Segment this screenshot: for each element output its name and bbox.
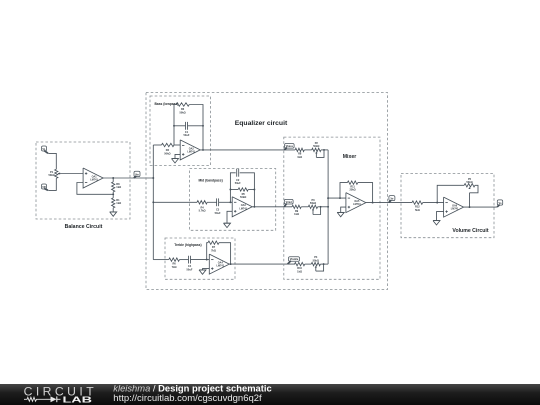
- wire to OA2 inverting input: [174, 144, 180, 146]
- wire P1 wiper to op-amp: [61, 173, 84, 175]
- junction feedback tap: [436, 202, 438, 204]
- junction R5 left: [229, 189, 231, 191]
- wire R9 to P3: [301, 206, 308, 208]
- junction C1 right: [202, 125, 204, 127]
- ground: [224, 223, 231, 227]
- wire mid output to mixer: [252, 206, 292, 208]
- wire P4 to bus: [320, 263, 328, 265]
- junction OA4 inverting input: [206, 259, 208, 261]
- wire feedback right: [219, 243, 231, 264]
- svg-text:5.7kΩ: 5.7kΩ: [199, 209, 206, 213]
- wire input bus: [152, 145, 154, 260]
- wire R4 to C3: [207, 201, 216, 203]
- wire feedback right: [240, 173, 255, 207]
- wire bus to R2: [153, 144, 161, 146]
- svg-text:Volume Circuit: Volume Circuit: [452, 228, 488, 234]
- wire VR to P1: [48, 178, 56, 190]
- Equalizer circuit box: [146, 93, 388, 290]
- junction bus/Vmid: [327, 206, 329, 208]
- node VL input: [42, 146, 49, 153]
- node Vout: [497, 200, 503, 207]
- wire R1 to ground: [112, 208, 114, 212]
- wire feedback to inverting input: [77, 183, 113, 195]
- footer url line: [113, 393, 262, 404]
- wire C4 to OA4: [191, 259, 207, 261]
- resistor R4 5.7k: [197, 201, 207, 213]
- svg-text:LAB: LAB: [63, 395, 93, 404]
- wire mixer output: [366, 202, 412, 204]
- junction bus/Vin: [152, 177, 154, 179]
- svg-text:http://circuitlab.com/cgscuvdg: http://circuitlab.com/cgscuvdgn6q2f: [113, 393, 262, 404]
- wire feedback right: [358, 183, 373, 203]
- ground: [199, 270, 206, 274]
- op-amp OA1: [83, 168, 103, 188]
- wire bus to R4: [153, 201, 197, 203]
- Treble (highpass) box: [165, 238, 235, 279]
- op-amp OA3: [232, 197, 252, 217]
- potentiometer P4 50k: [311, 255, 320, 271]
- Balance Circuit box: [36, 142, 130, 219]
- svg-text:Vbass: Vbass: [286, 145, 294, 148]
- svg-text:50kΩ: 50kΩ: [179, 110, 185, 114]
- Mixer box: [284, 137, 380, 279]
- wire to OA4: [207, 259, 210, 261]
- ground: [172, 159, 179, 163]
- svg-text:Vmid: Vmid: [286, 201, 293, 204]
- svg-text:50kΩ: 50kΩ: [240, 195, 246, 199]
- svg-text:1kΩ: 1kΩ: [116, 185, 121, 189]
- wire P2 wiper loop: [316, 150, 324, 158]
- svg-text:50kΩ: 50kΩ: [313, 258, 319, 262]
- junction OA6 output: [469, 206, 471, 208]
- junction P3 loop: [320, 206, 322, 208]
- logo LAB text: [63, 395, 93, 404]
- potentiometer P3 50k: [308, 198, 317, 215]
- wire to OA3: [230, 201, 232, 203]
- Volume Circuit box: [401, 174, 494, 238]
- node Vmid: [284, 199, 293, 206]
- junction bus to OA5: [327, 197, 329, 199]
- svg-text:50kΩ: 50kΩ: [48, 173, 54, 177]
- svg-text:LM741: LM741: [239, 207, 247, 210]
- wire R8 to R1: [112, 192, 114, 198]
- junction OA5 output: [372, 202, 374, 204]
- wire cap right: [188, 125, 204, 127]
- junction P2 loop: [323, 149, 325, 151]
- resistor R8 1k (mixer): [295, 148, 304, 159]
- node Vbass: [284, 144, 294, 150]
- svg-text:LM741: LM741: [353, 203, 361, 206]
- wire mixer bus: [327, 150, 329, 264]
- junction output/R8: [112, 177, 114, 179]
- potentiometer P5 50k: [464, 177, 475, 189]
- footer title line: [113, 382, 271, 393]
- resistor R12 5k: [412, 201, 423, 212]
- op-amp OA5: [346, 193, 366, 213]
- svg-text:50uF: 50uF: [235, 181, 241, 185]
- svg-text:7kΩ: 7kΩ: [172, 265, 177, 269]
- resistor R9 1k (mixer): [292, 205, 301, 216]
- wire R8 to P2: [304, 149, 311, 151]
- wire OA6 + to ground: [437, 212, 444, 221]
- svg-text:Bass (lowpass): Bass (lowpass): [155, 102, 179, 106]
- svg-text:Treble (highpass): Treble (highpass): [174, 243, 201, 247]
- junction feedback tap: [339, 197, 341, 199]
- svg-text:50uF: 50uF: [215, 211, 221, 215]
- svg-text:kleishma / Design project sche: kleishma / Design project schematic: [113, 382, 271, 393]
- svg-text:Vtreble: Vtreble: [290, 258, 299, 261]
- wire P5 wiper to output: [469, 193, 471, 207]
- svg-text:Vo: Vo: [498, 202, 501, 205]
- wire treble output to mixer: [229, 263, 295, 265]
- junction R5 right: [253, 189, 255, 191]
- capacitor C3 50uF: [215, 198, 221, 214]
- wire feedback to P5: [437, 185, 464, 202]
- svg-text:LM741: LM741: [451, 208, 459, 211]
- svg-text:1kΩ: 1kΩ: [116, 201, 121, 205]
- svg-text:LM741: LM741: [90, 179, 98, 182]
- svg-text:25kΩ: 25kΩ: [349, 188, 355, 192]
- junction OA3 inverting input: [229, 201, 231, 203]
- svg-text:50kΩ: 50kΩ: [313, 144, 319, 148]
- svg-text:Equalizer circuit: Equalizer circuit: [235, 120, 288, 127]
- wire bus to R6: [153, 259, 169, 261]
- junction C1 left: [173, 125, 175, 127]
- wire P5 loop: [470, 185, 479, 193]
- junction P4 loop: [323, 263, 325, 265]
- junction OA4 output: [230, 263, 232, 265]
- wire R10 to P4: [305, 263, 312, 265]
- node Vtreble: [288, 257, 300, 264]
- svg-text:50kΩ: 50kΩ: [310, 201, 316, 205]
- resistor R1 1k: [112, 198, 122, 208]
- svg-text:1kΩ: 1kΩ: [297, 269, 302, 273]
- wire R6 to C4: [180, 259, 189, 261]
- wire cap left: [174, 125, 186, 127]
- op-amp OA2: [180, 140, 200, 160]
- junction bus/mid: [152, 201, 154, 203]
- resistor R8 1k: [112, 178, 122, 192]
- capacitor C1 50uF: [184, 122, 190, 137]
- logo resistor symbol: [24, 397, 46, 401]
- capacitor C4 50uF: [187, 256, 193, 272]
- svg-text:50kΩ: 50kΩ: [164, 151, 170, 155]
- junction feedback tap: [112, 193, 114, 195]
- resistor R5 50k: [230, 188, 254, 199]
- svg-text:1kΩ: 1kΩ: [294, 212, 299, 216]
- wire P3 wiper loop: [313, 207, 321, 215]
- wire P4 wiper loop: [316, 264, 324, 271]
- wire to feedback top: [174, 105, 176, 146]
- svg-text:LM741: LM741: [217, 265, 225, 268]
- svg-text:Mixer: Mixer: [343, 154, 357, 160]
- svg-text:5kΩ: 5kΩ: [415, 208, 420, 212]
- op-amp OA4: [209, 254, 229, 274]
- ground: [433, 221, 440, 225]
- wire bass output to mixer: [200, 149, 295, 151]
- wire feedback right: [189, 105, 203, 150]
- wire feedback left: [230, 173, 235, 203]
- wire OA6 output: [464, 206, 497, 208]
- svg-text:50uF: 50uF: [184, 133, 190, 137]
- wire OA4 + to ground: [203, 269, 210, 270]
- svg-text:VR: VR: [42, 186, 46, 189]
- resistor R6 7k: [169, 258, 180, 269]
- potentiometer P2 50k: [312, 141, 321, 158]
- CircuitLab logo text: [24, 384, 98, 398]
- node Vin: [134, 171, 140, 178]
- wire OA1 output: [103, 177, 153, 179]
- resistor R3 50k: [176, 103, 189, 115]
- wire R12 to OA6: [423, 202, 444, 204]
- ground: [337, 212, 344, 216]
- resistor R2 50k: [162, 143, 175, 155]
- resistor R10 1k (mixer): [295, 262, 305, 273]
- resistor R11 25k: [347, 181, 357, 192]
- svg-text:7kΩ: 7kΩ: [211, 248, 216, 252]
- wire OA3 + to ground: [227, 211, 232, 223]
- node Veq: [389, 196, 395, 203]
- junction OA3 output: [253, 206, 255, 208]
- wire P3 to bus: [318, 206, 329, 208]
- svg-text:LM741: LM741: [187, 151, 195, 154]
- node VR input: [42, 184, 49, 190]
- svg-text:VL: VL: [42, 148, 46, 151]
- ground: [110, 212, 117, 216]
- wire C3 to OA3: [219, 201, 231, 203]
- svg-text:Vin: Vin: [135, 174, 139, 177]
- wire VL to P1: [48, 153, 56, 169]
- wire OA5 + to ground: [341, 207, 346, 212]
- Bass (lowpass) box: [150, 96, 211, 166]
- resistor R7 7k: [208, 241, 219, 252]
- wire OA2 + to ground: [175, 154, 180, 158]
- op-amp OA6: [444, 197, 464, 217]
- svg-text:50kΩ: 50kΩ: [466, 180, 472, 184]
- capacitor C2 50uF: [235, 169, 241, 185]
- junction OA2 output: [202, 149, 204, 151]
- wire P2 to bus: [321, 149, 328, 151]
- wire feedback left: [340, 183, 347, 199]
- svg-text:50uF: 50uF: [187, 267, 193, 271]
- potentiometer P1 50k: [48, 169, 60, 178]
- logo diode symbol: [46, 396, 61, 402]
- Mid (bandpass) box: [190, 169, 276, 231]
- svg-text:Balance Circuit: Balance Circuit: [65, 224, 103, 230]
- wire bus to OA5 inverting input: [328, 197, 346, 199]
- wire feedback left: [207, 243, 208, 260]
- svg-text:Mid (bandpass): Mid (bandpass): [199, 179, 223, 183]
- svg-text:1kΩ: 1kΩ: [297, 155, 302, 159]
